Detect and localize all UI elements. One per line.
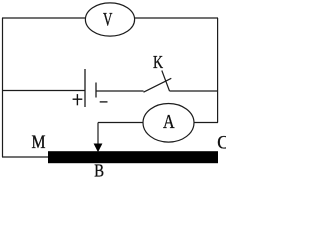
svg-text:M: M (32, 132, 46, 153)
wire left vertical (2, 18, 4, 157)
ammeter U2 ellipse (143, 104, 194, 143)
wire top right segment (135, 17, 218, 19)
switch K contact bar (162, 71, 170, 92)
slider arrow head (94, 144, 103, 153)
battery long plate (+) (84, 69, 86, 107)
svg-text:A: A (163, 111, 175, 133)
wire right vertical (217, 18, 219, 123)
wire top left segment (2, 17, 86, 19)
rheostat bar (48, 151, 218, 163)
switch K lever (144, 78, 172, 92)
svg-text:C: C (217, 133, 226, 153)
wire ammeter left (98, 122, 143, 124)
minus sign (100, 101, 108, 103)
battery short plate (-) (95, 83, 97, 98)
voltmeter U1 ellipse (85, 3, 134, 36)
plus sign (73, 94, 83, 105)
svg-text:V: V (103, 10, 113, 31)
wire switch to right vertical (170, 90, 219, 92)
svg-text:K: K (153, 52, 163, 72)
wire battery left (2, 90, 85, 92)
slider arrow shaft (97, 123, 99, 145)
wire battery to switch (96, 90, 144, 92)
wire bottom left (2, 156, 48, 158)
svg-text:B: B (94, 160, 104, 177)
wire ammeter right (194, 122, 218, 124)
